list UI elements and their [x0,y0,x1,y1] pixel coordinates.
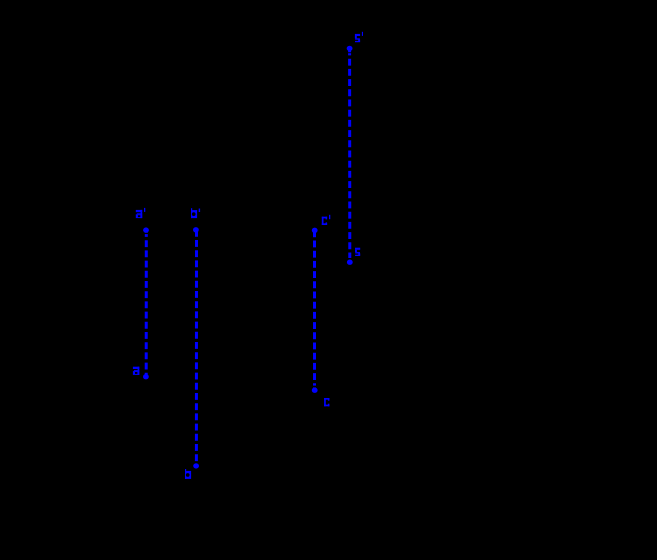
label S' [355,32,363,42]
node S' (point dot) [347,46,353,51]
label S [355,248,360,256]
wire: projection line c'c (dashed) [313,230,316,390]
node b (point dot) [193,463,199,468]
node S (point dot) [347,260,353,265]
gap above c dot [312,386,317,388]
node c' (point dot) [312,228,318,233]
label c' [322,215,331,225]
gap above S dot [347,258,352,259]
node a' (point dot) [143,227,149,232]
label b [185,469,191,479]
label c [324,398,329,406]
wire: projection line S'S (dashed) [348,49,351,263]
label b' [191,208,200,218]
node b' (point dot) [193,227,199,232]
gap below S' dot [347,51,352,54]
wire: projection line a'a (dashed) [145,230,148,377]
label a [133,367,139,375]
label a' [136,208,146,218]
gap below a' dot [144,233,149,234]
node a (point dot) [143,374,149,379]
node c (point dot) [312,388,318,393]
wire: projection line b'b (dashed) [195,230,198,466]
